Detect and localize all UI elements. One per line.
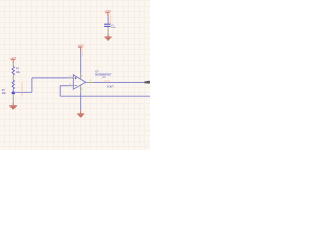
resistor R1 10k <box>12 66 21 75</box>
power symbol PWR2 +3V3 (op-amp V+) <box>77 44 84 51</box>
selection highlight (V+ wire) <box>81 49 83 57</box>
power symbol PWR3 +3V3 (capacitor) <box>105 10 112 16</box>
wire V- to ground <box>80 93 82 111</box>
wire feedback left <box>60 85 69 87</box>
op-amp U1 triangle <box>73 75 85 90</box>
selection highlight (left) <box>21 82 23 97</box>
pin (ground lead red) <box>80 110 82 113</box>
wire feedback bottom <box>60 95 150 97</box>
svg-text:100n: 100n <box>111 27 115 29</box>
wire node to step <box>13 91 32 93</box>
wire V+ <box>80 51 82 74</box>
pin (R1 bottom / R2 top) <box>12 75 14 80</box>
ground GND3 <box>105 37 112 40</box>
wire cap top <box>107 16 109 23</box>
pin 5 (V+) <box>80 74 82 80</box>
off-sheet label stub <box>144 81 150 83</box>
wire feedback down <box>59 86 61 97</box>
ground GND1 <box>9 106 17 109</box>
pin cap bottom <box>107 27 109 34</box>
wire step vertical <box>31 78 33 92</box>
resistor R2 10k <box>2 80 15 95</box>
pin 2 (V-) <box>80 86 82 93</box>
svg-text:VOUT: VOUT <box>107 85 114 88</box>
plus mark <box>75 77 77 79</box>
sheet background <box>0 0 150 150</box>
selection highlight (capacitor) <box>110 14 112 24</box>
pin 3 (+IN) <box>69 77 73 79</box>
wire output <box>94 82 145 84</box>
pin (ground lead red) <box>12 103 14 106</box>
pin 1 (output) <box>86 82 94 84</box>
pin (ground lead red) <box>107 34 109 37</box>
capacitor C1 100n <box>104 24 115 29</box>
wire (R2 bottom to node) <box>12 89 14 92</box>
node junction dot <box>12 92 15 95</box>
wire step to op-amp <box>32 77 70 79</box>
power symbol PWR1 +3V3 (left column) <box>10 57 17 63</box>
pin 4 (-IN) <box>69 85 73 87</box>
selection highlight (output wire) <box>104 80 111 82</box>
minus mark <box>75 85 77 87</box>
ground GND2 <box>77 114 84 117</box>
pin (R1 top) <box>12 63 14 66</box>
pin (node to ground) <box>12 94 14 103</box>
